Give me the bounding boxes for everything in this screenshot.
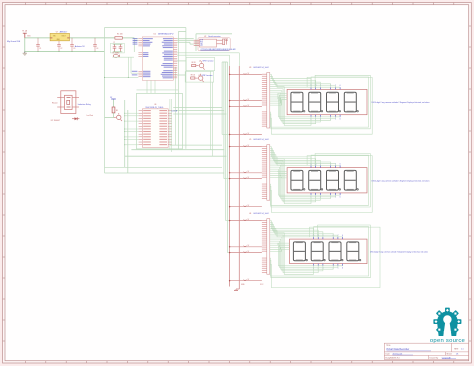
svg-text:REV:: REV: <box>454 348 459 350</box>
svg-text:TITLE:: TITLE: <box>386 345 391 347</box>
svg-text:R8 1K: R8 1K <box>192 62 196 64</box>
svg-text:Drive IN: Drive IN <box>171 109 178 112</box>
svg-text:2017-12-23: 2017-12-23 <box>393 354 403 356</box>
svg-text:+5V: +5V <box>200 45 203 47</box>
svg-text:6: 6 <box>342 267 343 269</box>
svg-text:VIN: VIN <box>53 36 56 38</box>
svg-text:SW1: SW1 <box>27 36 30 38</box>
svg-text:1.1: 1.1 <box>461 348 464 350</box>
svg-text:Cospeed8: Cospeed8 <box>442 358 451 360</box>
svg-text:C4: C4 <box>96 48 98 50</box>
svg-text:ATMEGA8-16PU: ATMEGA8-16PU <box>158 33 174 36</box>
svg-text:5V: 5V <box>248 73 250 75</box>
svg-text:HDR-M-2.54_1x24: HDR-M-2.54_1x24 <box>254 213 269 215</box>
svg-text:Arduino 5V: Arduino 5V <box>75 45 86 48</box>
svg-text:U7: U7 <box>56 31 58 33</box>
svg-text:HDR-M-2.54_1x24: HDR-M-2.54_1x24 <box>254 67 269 69</box>
svg-text:Serial converter: Serial converter <box>208 35 221 38</box>
svg-text:Y1 16MHz: Y1 16MHz <box>112 53 119 55</box>
svg-text:R5: R5 <box>116 110 118 112</box>
svg-text:DTR: DTR <box>200 40 203 42</box>
svg-text:5V: 5V <box>248 105 250 107</box>
svg-text:Y1: Y1 <box>113 42 115 44</box>
svg-text:R1 10K: R1 10K <box>117 33 124 35</box>
svg-text:Date:: Date: <box>386 353 391 356</box>
svg-text:Inductive Relay: Inductive Relay <box>78 103 91 106</box>
svg-text:U4: U4 <box>249 213 251 215</box>
svg-text:Q1: Q1 <box>199 61 201 63</box>
svg-text:C1: C1 <box>39 48 41 50</box>
svg-text:U6: U6 <box>154 104 156 106</box>
svg-text:6: 6 <box>340 119 341 121</box>
svg-text:5V: 5V <box>248 251 250 253</box>
svg-text:5V: 5V <box>248 219 250 221</box>
svg-text:Heater: Heater <box>52 102 58 105</box>
svg-text:U2: U2 <box>204 36 206 38</box>
svg-text:U3: U3 <box>249 67 251 69</box>
svg-text:DS2 4-digit 7-seg common catho: DS2 4-digit 7-seg common cathode 7-Segme… <box>372 179 430 182</box>
svg-text:5V: 5V <box>248 99 250 101</box>
svg-text:RXD: RXD <box>200 42 203 44</box>
svg-text:AMS1117: AMS1117 <box>60 30 68 33</box>
svg-text:6: 6 <box>340 85 341 87</box>
svg-text:1/1: 1/1 <box>456 354 459 356</box>
svg-text:HDR-M-2.54_1x24: HDR-M-2.54_1x24 <box>254 139 269 141</box>
svg-text:5V: 5V <box>248 177 250 179</box>
svg-text:Sheet:: Sheet: <box>447 353 453 356</box>
svg-text:D2 1N4007: D2 1N4007 <box>51 120 60 122</box>
svg-text:6: 6 <box>342 235 343 237</box>
svg-text:5V: 5V <box>248 133 250 135</box>
svg-text:R8 1K: R8 1K <box>191 75 195 77</box>
svg-text:6: 6 <box>340 197 341 199</box>
svg-text:U5: U5 <box>249 139 251 141</box>
svg-text:Drawn By:: Drawn By: <box>430 357 439 360</box>
svg-text:5V: 5V <box>248 279 250 281</box>
svg-text:5V: 5V <box>248 245 250 247</box>
svg-text:5V: 5V <box>248 171 250 173</box>
svg-text:Led Test: Led Test <box>87 114 94 117</box>
svg-text:5V: 5V <box>248 205 250 207</box>
svg-text:DS3 4-digit 7-seg common catho: DS3 4-digit 7-seg common cathode 7-Segme… <box>370 250 428 253</box>
svg-text:My Great IDE: My Great IDE <box>7 40 21 43</box>
svg-text:VOUT: VOUT <box>62 36 66 38</box>
svg-text:Q2: Q2 <box>198 75 200 77</box>
svg-text:5V: 5V <box>248 145 250 147</box>
svg-text:6: 6 <box>340 163 341 165</box>
svg-text:EasyEDA V4.9.4: EasyEDA V4.9.4 <box>386 357 400 360</box>
svg-text:TXD: TXD <box>200 43 203 45</box>
svg-text:C2: C2 <box>60 48 62 50</box>
svg-text:DS1 4-digit 7-seg common catho: DS1 4-digit 7-seg common cathode 7-Segme… <box>372 101 430 104</box>
